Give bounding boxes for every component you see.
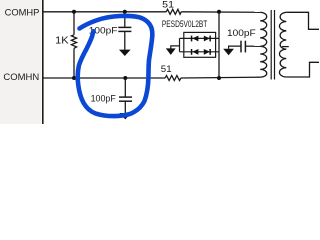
resistor R 1K vertical lead top: [73, 12, 75, 35]
capacitor C1 bottom lead: [124, 31, 126, 49]
junction dot top C1: [123, 10, 127, 14]
transformer T1 core: [270, 10, 272, 80]
left margin strip: [0, 0, 41, 124]
ESD U1 box: [184, 32, 216, 57]
ESD row1 line: [180, 37, 220, 39]
ground arrow2 triangle: [223, 49, 234, 56]
junction dot bottom ESD tie: [217, 76, 221, 80]
svg-text:PESD5V0L2BT: PESD5V0L2BT: [162, 19, 208, 29]
svg-text:COMHN: COMHN: [3, 71, 39, 82]
capacitor C1 plates: [118, 26, 131, 28]
ESD diode row2 left triangle: [192, 49, 198, 55]
ESD diode row1 right triangle: [204, 36, 210, 42]
junction dot top ESD tie: [217, 10, 221, 14]
wire: COMHN rail left segment: [44, 77, 166, 79]
ground ESD arrow triangle: [166, 48, 176, 55]
transformer T1 primary winding: [260, 12, 267, 77]
resistor R 1K lead bottom: [73, 48, 75, 78]
ESD diode row1 left cathode bar: [191, 36, 193, 42]
page background: [0, 0, 319, 124]
junction dot bottom 1K: [72, 76, 76, 80]
ESD diode row2 right triangle: [204, 49, 210, 55]
svg-text:COMHP: COMHP: [5, 7, 40, 18]
svg-text:51: 51: [162, 0, 174, 10]
junction dot bottom C2: [123, 76, 127, 80]
svg-text:51: 51: [161, 64, 172, 75]
transformer T1 secondary winding: [279, 12, 286, 77]
resistor 51 bottom body: [165, 76, 181, 81]
resistor R 1K body: [71, 35, 76, 49]
svg-text:100pF: 100pF: [91, 94, 116, 105]
blue annotation loop: [78, 16, 153, 116]
ESD tie line vertical: [218, 12, 220, 78]
wire: COMHN rail right segment: [181, 76, 260, 79]
wire: COMHP top rail right segment: [181, 11, 260, 14]
junction dot top 1K: [72, 10, 76, 14]
wire: COMHP top rail left segment: [44, 11, 167, 13]
ESD diode row2 left cathode bar: [191, 49, 193, 55]
ESD diode row2 right cathode bar: [209, 49, 211, 55]
sheet border line: [42, 0, 44, 124]
ground C2 triangle: [120, 113, 132, 119]
wire: secondary center tap stub: [282, 46, 289, 48]
capacitor C2 bottom lead: [124, 101, 126, 113]
capacitor C2 100pF top lead: [124, 78, 126, 97]
capacitor C2 plates: [119, 96, 132, 98]
ESD ground tap wire: [171, 46, 180, 49]
wire: secondary bottom out: [286, 62, 319, 77]
capacitor C1 100pF top lead: [124, 12, 126, 27]
svg-text:100pF: 100pF: [227, 28, 256, 39]
capacitor C3 wire to transformer tap: [245, 45, 260, 47]
wire: secondary top out: [286, 12, 319, 29]
ground C1 triangle: [119, 50, 131, 56]
capacitor C3 100pF plates: [240, 41, 242, 53]
ESD diode row1 right cathode bar: [209, 36, 211, 42]
svg-text:1K: 1K: [55, 36, 68, 47]
ESD diode row1 left triangle: [192, 36, 198, 42]
ESD left pin bus: [179, 38, 181, 51]
ground arrow2 tap wire: [229, 46, 241, 49]
ESD row2 line: [180, 51, 220, 53]
resistor 51 top body: [166, 9, 181, 14]
